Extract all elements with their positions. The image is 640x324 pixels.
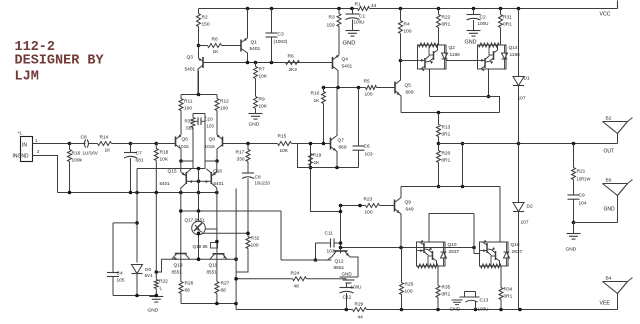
svg-text:R22: R22 xyxy=(159,279,168,285)
svg-text:1186: 1186 xyxy=(450,52,461,58)
resistor R22 bottom xyxy=(154,280,158,289)
wire Q3 collector xyxy=(198,71,200,95)
junction R17 xyxy=(246,142,250,146)
transistor Q19 xyxy=(211,243,218,249)
svg-text:OUT: OUT xyxy=(604,149,615,155)
wire OUT to y186 xyxy=(462,144,464,187)
wire R4 to Q2 base xyxy=(401,60,418,62)
junction feedback xyxy=(309,166,313,170)
transistor Q6 xyxy=(175,137,177,147)
power transistor Q18 xyxy=(480,242,509,266)
svg-text:C3: C3 xyxy=(278,32,284,38)
junction xyxy=(197,167,201,171)
wire to C4 xyxy=(113,222,137,224)
resistor R7 xyxy=(254,67,258,79)
svg-text:R19: R19 xyxy=(313,153,322,159)
junction Q1 collector xyxy=(246,61,250,65)
svg-text:Q1: Q1 xyxy=(251,40,258,46)
resistor R35 xyxy=(436,286,440,298)
svg-text:R7: R7 xyxy=(259,67,265,73)
resistor R25 xyxy=(400,283,404,295)
wire Q2 to Q14 base xyxy=(446,60,478,62)
wire L from bias bus xyxy=(156,259,161,272)
svg-text:100: 100 xyxy=(405,289,413,295)
transistor Q1 xyxy=(240,40,242,52)
ground xyxy=(149,296,163,298)
svg-text:10K: 10K xyxy=(259,74,268,80)
svg-text:R22: R22 xyxy=(442,15,451,21)
wire pin2 down xyxy=(33,156,58,193)
junction R7 top xyxy=(254,61,258,65)
svg-text:0R1: 0R1 xyxy=(504,294,513,300)
svg-text:R16: R16 xyxy=(72,151,81,157)
svg-text:1U/16V: 1U/16V xyxy=(83,151,99,156)
wire diff tail xyxy=(181,94,217,96)
wire emitter bus y112 xyxy=(401,112,500,114)
wire to B4 xyxy=(617,294,619,310)
wire mirror bridge left xyxy=(179,159,183,163)
svg-text:Q2: Q2 xyxy=(449,45,456,51)
transistor Q3 xyxy=(198,46,200,59)
junction VCC rail xyxy=(472,7,476,11)
svg-text:0R1: 0R1 xyxy=(442,132,451,138)
svg-text:B0: B0 xyxy=(606,178,612,184)
svg-text:R18: R18 xyxy=(160,150,169,156)
wire to Q6 base xyxy=(156,143,175,145)
wire VCC stub up xyxy=(617,1,619,9)
svg-text:C9: C9 xyxy=(579,193,585,199)
svg-text:D1: D1 xyxy=(524,76,530,82)
resistor R11 xyxy=(179,99,183,111)
svg-text:Q4: Q4 xyxy=(342,57,349,63)
svg-text:R6: R6 xyxy=(288,54,294,60)
svg-text:C6: C6 xyxy=(364,144,370,150)
svg-text:Q19 85: Q19 85 xyxy=(193,244,209,249)
svg-text:5V1: 5V1 xyxy=(145,273,154,278)
resistor R19 xyxy=(309,154,313,166)
resistor R18 xyxy=(154,149,158,161)
svg-text:GND: GND xyxy=(343,41,356,47)
svg-text:44: 44 xyxy=(371,3,377,9)
terminal B2 xyxy=(603,121,628,123)
svg-text:C4: C4 xyxy=(117,271,123,277)
svg-text:GND: GND xyxy=(249,122,260,128)
svg-text:100U: 100U xyxy=(351,285,362,290)
wire Q18 out up xyxy=(499,187,501,243)
svg-text:0R1: 0R1 xyxy=(442,292,451,298)
wire x340 column xyxy=(340,206,342,254)
svg-text:100: 100 xyxy=(365,210,373,216)
power transistor Q2 xyxy=(418,45,447,69)
transistor Q17 xyxy=(192,221,206,235)
junction xyxy=(234,302,238,306)
node after R14 xyxy=(129,142,133,146)
junction R4 xyxy=(399,59,403,63)
wire VEE rail right xyxy=(367,309,618,311)
ground C1 xyxy=(346,30,360,32)
svg-text:R34: R34 xyxy=(504,287,513,293)
wire right column lower xyxy=(216,211,218,254)
svg-text:1K: 1K xyxy=(314,98,321,104)
wire down to Q12 bus xyxy=(280,211,282,260)
junction VEE rail xyxy=(518,308,522,312)
svg-text:DESIGNER BY: DESIGNER BY xyxy=(15,53,105,68)
junction VCC rail xyxy=(399,7,403,11)
wire mirror to bias xyxy=(198,169,200,211)
junction y295 xyxy=(155,294,159,298)
resistor R20 xyxy=(437,151,441,163)
resistor R12 xyxy=(215,99,219,111)
svg-text:GND: GND xyxy=(465,40,477,46)
capacitor C6 xyxy=(358,88,360,147)
node R2/R8/Q3 xyxy=(197,44,201,48)
wire VCC rail left xyxy=(199,8,358,10)
diode D2 xyxy=(518,144,520,203)
junction VEE rail xyxy=(474,308,478,312)
capacitor C10 xyxy=(197,118,199,126)
svg-text:Q3: Q3 xyxy=(187,55,194,61)
junction Q17 emitter xyxy=(197,232,201,236)
wire VEE rail left xyxy=(236,309,352,311)
resistor R34 xyxy=(499,288,503,300)
svg-text:R25: R25 xyxy=(405,282,414,288)
svg-text:5401: 5401 xyxy=(160,181,171,186)
svg-text:10U220: 10U220 xyxy=(255,181,271,186)
wire out bus top xyxy=(430,97,500,113)
svg-text:LJM: LJM xyxy=(15,69,39,84)
svg-text:Q8: Q8 xyxy=(209,137,216,143)
wire to R18/Q6 xyxy=(131,143,157,145)
junction xyxy=(358,204,362,208)
svg-text:R33: R33 xyxy=(185,119,194,124)
junction VCC rail xyxy=(337,7,341,11)
wire bias bottom bus xyxy=(162,258,237,260)
svg-text:330: 330 xyxy=(186,126,194,131)
transistor Q15 xyxy=(185,172,187,184)
junction xyxy=(572,221,576,225)
svg-text:C12: C12 xyxy=(343,295,352,301)
svg-text:R26: R26 xyxy=(185,281,194,287)
wire y186 bus xyxy=(401,186,500,188)
junction C3 bottom xyxy=(270,61,274,65)
wire base bus y247 xyxy=(341,247,475,249)
capacitor C8 feedback 10U xyxy=(247,162,249,174)
wire bias top xyxy=(181,210,281,212)
junction VEE rail xyxy=(345,308,349,312)
junction xyxy=(234,277,238,281)
svg-text:681: 681 xyxy=(136,158,144,164)
svg-text:1015: 1015 xyxy=(179,144,190,149)
wire Q12 base-left bus xyxy=(281,259,332,261)
svg-text:Q11: Q11 xyxy=(209,263,218,269)
resistor R5 xyxy=(366,86,377,90)
svg-text:GND: GND xyxy=(604,207,616,213)
svg-text:R11: R11 xyxy=(184,99,193,105)
svg-text:10K: 10K xyxy=(280,148,289,154)
junction ground bus xyxy=(197,191,201,195)
junction D0 bottom xyxy=(135,294,139,298)
svg-text:8551: 8551 xyxy=(334,265,345,271)
junction y186 xyxy=(437,185,441,189)
svg-text:R31: R31 xyxy=(503,15,512,21)
transistor Q4 xyxy=(332,57,334,69)
wire R7-R9 xyxy=(255,79,257,97)
wire VAS input bus xyxy=(203,62,333,64)
svg-text:669: 669 xyxy=(406,90,414,96)
junction VEE rail xyxy=(400,308,404,312)
svg-text:1015: 1015 xyxy=(205,144,216,149)
junction VCC rail xyxy=(270,7,274,11)
junction D1/D2 xyxy=(517,142,521,146)
transistor Q7 xyxy=(330,138,332,150)
svg-text:C7: C7 xyxy=(136,151,142,157)
svg-text:Q15: Q15 xyxy=(168,169,177,175)
diode D1 xyxy=(518,9,520,77)
svg-text:R20: R20 xyxy=(442,151,451,157)
svg-text:5401: 5401 xyxy=(185,67,196,73)
wire VCC rail right xyxy=(370,8,618,10)
svg-text:100: 100 xyxy=(404,29,412,35)
junction ground bus xyxy=(215,191,219,195)
junction xyxy=(179,209,183,213)
node input xyxy=(68,142,72,146)
junction xyxy=(135,221,139,225)
ground C13 xyxy=(452,299,463,301)
wire Q17 to R32 xyxy=(202,232,249,234)
junction mirror leads xyxy=(197,180,201,184)
svg-text:0R1: 0R1 xyxy=(503,22,512,28)
junction xyxy=(339,210,343,214)
junction Q7 xyxy=(336,86,340,90)
svg-text:107: 107 xyxy=(518,96,526,102)
svg-text:L: L xyxy=(160,286,163,292)
ground Q12 emitter xyxy=(340,276,359,278)
junction ground bus xyxy=(129,191,133,195)
svg-text:B4: B4 xyxy=(606,276,612,282)
junction Q9 emitter xyxy=(399,246,403,250)
capacitor C1 xyxy=(352,9,354,15)
connector J1 input xyxy=(21,137,33,162)
junction ground bus xyxy=(179,191,183,195)
wire to B2 xyxy=(617,134,619,144)
resistor R33 with C10 xyxy=(193,113,205,115)
resistor R6 xyxy=(286,61,300,65)
svg-text:8551: 8551 xyxy=(172,270,183,275)
svg-text:GND: GND xyxy=(342,272,353,277)
junction VCC rail xyxy=(517,7,521,11)
svg-text:5401: 5401 xyxy=(214,181,225,186)
svg-text:2K2: 2K2 xyxy=(289,67,298,73)
junction xyxy=(487,95,491,99)
svg-text:330: 330 xyxy=(237,157,245,163)
junction xyxy=(339,204,343,208)
junction xyxy=(246,232,250,236)
resistor R24 xyxy=(293,277,307,281)
svg-text:R17: R17 xyxy=(236,150,245,156)
svg-text:44: 44 xyxy=(358,315,364,320)
svg-text:Q6: Q6 xyxy=(182,137,189,143)
svg-text:10R1W: 10R1W xyxy=(577,177,591,182)
resistor R1 xyxy=(358,7,370,11)
junction VCC rail xyxy=(499,7,503,11)
svg-text:B2: B2 xyxy=(606,116,612,122)
wire to Q18 base xyxy=(474,214,480,254)
capacitor C4 xyxy=(112,223,114,273)
svg-text:68: 68 xyxy=(185,288,191,294)
junction Q19 xyxy=(215,240,219,244)
wire column to D0 xyxy=(136,169,138,263)
svg-text:Q7: Q7 xyxy=(338,138,345,144)
svg-text:R1: R1 xyxy=(355,2,361,8)
junction tail xyxy=(197,93,201,97)
junction R13 top xyxy=(437,111,441,115)
wire R19 column / y211 xyxy=(311,144,341,212)
resistor R4 xyxy=(399,21,403,34)
resistor R15 xyxy=(278,142,292,146)
transistor Q12 xyxy=(334,250,348,252)
ground C2 xyxy=(467,30,481,32)
resistor R2 xyxy=(197,14,201,27)
wire up to B0 xyxy=(617,196,619,223)
resistor R21 xyxy=(572,168,576,180)
svg-text:IN: IN xyxy=(22,143,27,149)
junction VEE rail xyxy=(436,308,440,312)
capacitor C12 xyxy=(346,283,348,288)
svg-text:0R1: 0R1 xyxy=(442,158,451,164)
wire feedback bus xyxy=(223,143,278,145)
svg-text:C10: C10 xyxy=(205,117,214,122)
junction Q7 emitter xyxy=(335,166,339,170)
wire R26/R27 bottom xyxy=(181,303,236,305)
junction OUT node xyxy=(437,142,441,146)
capacitor C11 xyxy=(330,239,332,248)
wire right column lower2 xyxy=(216,254,218,282)
wire Q10 out up xyxy=(429,214,474,243)
junction VCC rail xyxy=(246,7,250,11)
ground xyxy=(249,113,263,115)
power transistor Q10 xyxy=(417,242,446,266)
svg-text:R13: R13 xyxy=(442,125,451,131)
transistor Q8 xyxy=(222,137,224,147)
svg-text:100: 100 xyxy=(184,106,192,112)
svg-text:103: 103 xyxy=(365,152,373,158)
svg-text:(1002): (1002) xyxy=(274,39,288,45)
svg-text:100: 100 xyxy=(251,243,259,249)
svg-text:Q14: Q14 xyxy=(509,45,518,51)
svg-text:C2: C2 xyxy=(480,15,486,21)
terminal B0 xyxy=(603,183,628,185)
resistor R23 xyxy=(366,204,380,208)
svg-text:R8: R8 xyxy=(212,37,218,43)
zener D0 xyxy=(132,265,143,274)
transistor Q5 xyxy=(394,82,396,94)
svg-text:R32: R32 xyxy=(251,236,260,242)
wire mirror base bus xyxy=(137,168,205,170)
svg-text:D2: D2 xyxy=(527,204,533,210)
junction R10 top xyxy=(322,86,326,90)
svg-text:104: 104 xyxy=(579,201,587,207)
capacitor C13 xyxy=(475,302,477,310)
wire feedback lower xyxy=(298,144,359,168)
svg-text:R4: R4 xyxy=(404,22,410,28)
wire Q2 out xyxy=(429,69,431,97)
junction xyxy=(234,257,238,261)
svg-text:1K: 1K xyxy=(314,160,321,166)
junction VCC rail xyxy=(437,7,441,11)
capacitor C9 xyxy=(573,180,575,196)
svg-text:Q5: Q5 xyxy=(405,83,412,89)
svg-text:100U: 100U xyxy=(478,21,489,26)
junction xyxy=(472,246,476,250)
svg-text:8551: 8551 xyxy=(207,270,218,275)
svg-text:R23: R23 xyxy=(364,197,373,203)
svg-text:10K: 10K xyxy=(160,157,169,163)
svg-text:48: 48 xyxy=(294,284,300,290)
svg-text:R14: R14 xyxy=(100,135,109,141)
node R18 top xyxy=(155,142,159,146)
wire to VEE rail xyxy=(235,304,237,310)
svg-text:5401: 5401 xyxy=(250,46,261,52)
svg-text:GND: GND xyxy=(450,307,461,313)
capacitor C2 xyxy=(473,9,475,15)
svg-text:150: 150 xyxy=(202,22,210,28)
wire ground bus xyxy=(58,192,217,194)
resistor R17 xyxy=(246,150,250,162)
svg-text:C11: C11 xyxy=(325,231,334,237)
junction VEE rail xyxy=(499,308,503,312)
svg-text:R15: R15 xyxy=(278,134,287,140)
svg-text:R5: R5 xyxy=(364,79,370,85)
wire OUT xyxy=(439,143,618,145)
svg-text:150: 150 xyxy=(327,23,335,29)
junction xyxy=(197,257,201,261)
junction R21 xyxy=(572,142,576,146)
svg-text:INGND: INGND xyxy=(13,154,30,160)
svg-text:VEE: VEE xyxy=(600,301,611,307)
resistor R8 xyxy=(208,44,222,48)
power transistor Q14 xyxy=(478,45,507,69)
wire right column mid xyxy=(216,193,218,212)
junction xyxy=(339,246,343,250)
wire x235 column xyxy=(235,189,237,304)
resistor R29 xyxy=(353,308,367,312)
svg-text:R29: R29 xyxy=(355,302,364,308)
svg-text:1K: 1K xyxy=(105,148,112,154)
resistor R3 xyxy=(337,14,341,27)
svg-text:VCC: VCC xyxy=(600,12,611,18)
svg-text:Q12: Q12 xyxy=(335,259,344,265)
wire Q14 out xyxy=(488,69,490,97)
wire mirror bridge right xyxy=(215,159,219,163)
wire left column lower xyxy=(180,193,182,282)
junction ground bus xyxy=(68,191,72,195)
svg-text:0R1: 0R1 xyxy=(442,22,451,28)
svg-text:GND: GND xyxy=(566,247,577,253)
svg-text:R35: R35 xyxy=(442,285,451,291)
svg-text:R9: R9 xyxy=(259,97,265,103)
resistor R13 xyxy=(437,125,441,137)
transistor Q11 xyxy=(213,253,225,255)
resistor R10 xyxy=(322,92,326,104)
svg-text:10K: 10K xyxy=(259,104,268,110)
svg-text:Q16: Q16 xyxy=(213,169,222,175)
svg-text:649: 649 xyxy=(406,207,414,213)
junction xyxy=(314,258,318,262)
junction VCC rail xyxy=(350,7,354,11)
junction R19 top xyxy=(309,142,313,146)
resistor R16 xyxy=(68,150,72,162)
resistor R14 xyxy=(98,142,112,146)
